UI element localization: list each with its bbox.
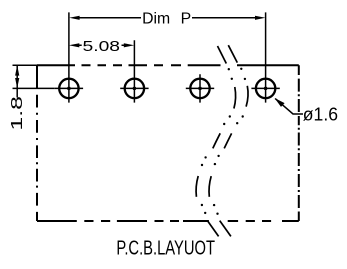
hole H1 (circle)	[59, 79, 78, 98]
hole H1 center mark	[55, 12, 83, 102]
dimension Dim P arrowheads	[69, 16, 79, 20]
hole H4 center mark	[251, 12, 279, 102]
leader for hole diameter	[275, 99, 303, 114]
dimension 5.08 arrowheads	[69, 43, 79, 47]
PCB outline: left edge	[36, 65, 38, 221]
svg-text:P.C.B.LAYUOT: P.C.B.LAYUOT	[116, 236, 215, 259]
dimension 1.8 line	[16, 65, 18, 97]
PCB outline: bottom edge	[37, 220, 299, 222]
hole H4 (circle)	[256, 79, 275, 98]
hole H2 center mark	[120, 40, 148, 102]
svg-text:P: P	[181, 11, 192, 28]
svg-text:5.08: 5.08	[83, 38, 121, 55]
dimension 5.08 line	[79, 44, 124, 46]
svg-text:Dim: Dim	[142, 11, 170, 28]
dimension 1.8 arrowheads	[15, 65, 19, 75]
svg-text:ø1.6: ø1.6	[303, 104, 338, 125]
leader arrowhead	[275, 98, 285, 107]
dimension Dim P line	[79, 17, 256, 19]
hole H2 (circle)	[125, 79, 144, 98]
dimension 1.8 extension lines	[13, 65, 55, 88]
break line 2 (right)	[209, 45, 248, 236]
hole H3 center mark	[186, 74, 214, 102]
svg-text:1.8: 1.8	[9, 96, 26, 131]
hole H3 (circle)	[190, 79, 209, 98]
break line 1 (left)	[196, 46, 236, 236]
PCB outline: top edge	[37, 64, 299, 66]
PCB outline: right edge	[298, 65, 300, 221]
